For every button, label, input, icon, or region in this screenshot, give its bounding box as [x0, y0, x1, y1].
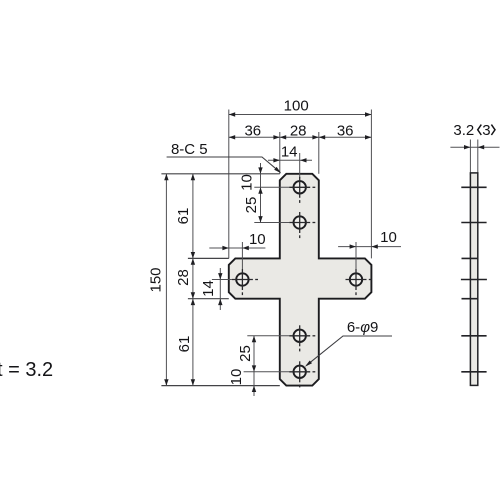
extension line arm bottom left: [188, 298, 229, 300]
side view centerline tick arm holes: [461, 279, 487, 281]
svg-text:t = 3.2: t = 3.2: [0, 359, 53, 381]
dimension 100 line: [229, 114, 372, 116]
extension line plate right edge: [370, 110, 372, 259]
side view centerline tick hole H4: [461, 371, 486, 373]
extension line plate bottom left: [161, 385, 279, 387]
side view centerline tick hole H3: [461, 335, 486, 337]
svg-text:14: 14: [281, 143, 298, 160]
extension line hole H1 left: [254, 186, 289, 188]
leader 6-phi9 hole note: [307, 336, 392, 365]
dimension 25 top-column line: [260, 187, 262, 222]
dimension 14 left line: [219, 268, 221, 310]
hole H3 lower (phi 9): [289, 325, 315, 351]
dimension 10 right-arm line: [338, 246, 401, 248]
extension line hole H2 left: [254, 222, 289, 224]
extension line plate top left: [161, 173, 279, 175]
svg-text:61: 61: [175, 208, 192, 225]
svg-text:61: 61: [176, 336, 193, 353]
extension line column left edge: [279, 132, 281, 174]
hole H1 top (phi 9): [289, 177, 315, 203]
dimension 10 left-arm line: [209, 247, 265, 249]
hole H2 upper (phi 9): [289, 212, 315, 238]
svg-text:150: 150: [148, 267, 165, 292]
svg-text:3: 3: [482, 122, 490, 139]
svg-text:10: 10: [380, 229, 397, 246]
hole H6 right arm (phi 9): [346, 269, 372, 295]
side view arm bottom edge line: [462, 298, 478, 300]
svg-text:8-C 5: 8-C 5: [171, 141, 208, 158]
dimension 3.2 line: [450, 146, 499, 148]
svg-text:36: 36: [337, 123, 354, 140]
svg-text:10: 10: [239, 174, 256, 191]
dimension 150 line: [165, 174, 167, 386]
hole H5 left arm (phi 9): [232, 269, 258, 295]
plate outline (cross-shaped plate, front view): [229, 174, 372, 386]
extension line arm top left: [188, 257, 229, 259]
svg-text:25: 25: [243, 197, 260, 214]
extension line hole H4 left: [244, 371, 290, 373]
svg-text:100: 100: [284, 98, 309, 115]
side view extension lines for thickness: [469, 140, 471, 175]
svg-text:10: 10: [249, 231, 266, 248]
extension line left-arm hole centerline up: [241, 242, 243, 269]
dimension 14 top line: [268, 159, 312, 161]
svg-text:36: 36: [244, 123, 261, 140]
extension line column right edge: [318, 132, 320, 174]
extension line hole H3 left: [247, 335, 289, 337]
extension line right-arm hole centerline up: [355, 242, 357, 269]
dimension 36-28-36 line: [229, 136, 372, 138]
side view arm top edge line: [462, 257, 478, 259]
svg-text:14: 14: [200, 280, 217, 297]
side view strip (plate thickness view): [470, 173, 477, 386]
dimension 10 bottom-column line: [253, 372, 255, 396]
side view centerline tick hole H2: [461, 222, 486, 224]
svg-text:10: 10: [228, 369, 245, 386]
svg-text:6-φ9: 6-φ9: [347, 319, 378, 336]
extension line left-arm hole centerline left: [212, 279, 232, 281]
svg-text:28: 28: [290, 123, 307, 140]
svg-text:25: 25: [237, 345, 254, 362]
dimension 25 bottom-column line: [253, 336, 255, 372]
extension line column hole centerline up: [299, 153, 301, 178]
leader 8-C5 chamfer note: [167, 157, 280, 172]
dimension 10 top-column line: [260, 163, 262, 187]
hole H4 bottom (phi 9): [289, 361, 315, 387]
svg-text:28: 28: [175, 269, 192, 286]
side view centerline tick hole H1: [461, 186, 486, 188]
extension line plate left edge: [228, 110, 230, 259]
svg-text:3.2: 3.2: [453, 122, 474, 139]
dimension 61-28-61 line: [192, 174, 194, 386]
